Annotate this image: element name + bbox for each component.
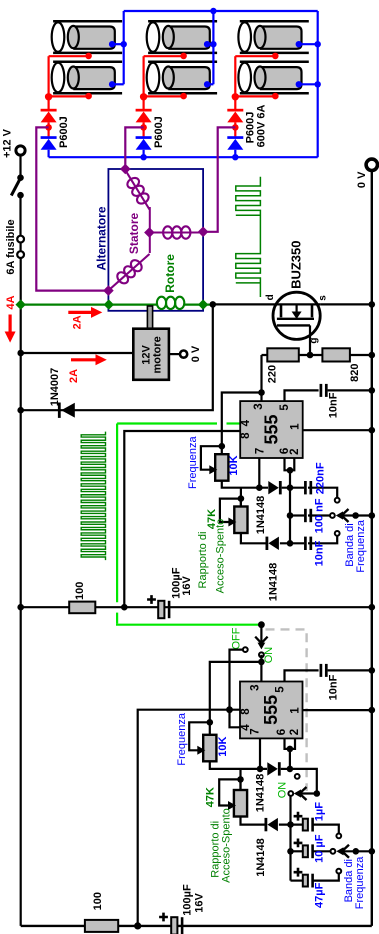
- node rotor to drain: [210, 301, 217, 308]
- svg-text:100 nF: 100 nF: [314, 498, 326, 533]
- wire pins 6+2 tie U1: [285, 458, 295, 470]
- junction rotor on frame left: [104, 299, 114, 309]
- wire supply lower U1: [21, 606, 372, 608]
- red wire battery group 1 row A: [49, 55, 89, 57]
- junction bus 10uF row: [287, 848, 294, 855]
- label D4 1N4148: [255, 496, 267, 535]
- fuse 6A fusibile: [17, 236, 24, 258]
- stator winding L2 (right): [150, 232, 203, 234]
- terminal motor 0V: [180, 351, 187, 358]
- wire band selector wiper lower: [336, 845, 372, 858]
- wire phase 2 purple: [125, 127, 143, 169]
- pin label s: [317, 295, 328, 301]
- blue wire cell 1a terminal: [112, 43, 124, 45]
- wire R3 10K wiper: [201, 446, 222, 470]
- svg-text:7: 7: [254, 448, 266, 454]
- wire C7 to contact: [313, 825, 339, 834]
- wire pins 6+2 tie U2: [285, 738, 296, 749]
- junction battery group 1 row A: [85, 53, 92, 60]
- diode D2b P600J (blue): [136, 136, 152, 150]
- battery cell B1b end cap: [52, 63, 65, 93]
- junction wiper rail lower: [369, 848, 376, 855]
- label Frequenza upper: [187, 436, 199, 489]
- wire D7 to bus: [279, 823, 303, 825]
- junction bus to switch U2: [287, 766, 294, 773]
- arrow 2A lower: [71, 354, 107, 365]
- svg-text:6A fusibile: 6A fusibile: [5, 219, 17, 274]
- wire phase 1 purple: [36, 127, 108, 290]
- svg-text:ON: ON: [276, 782, 288, 799]
- wire diode pair 1 center: [47, 122, 49, 136]
- wire phase 3 purple: [203, 127, 235, 231]
- wire C2 to selector contact: [308, 488, 337, 498]
- pin label g: [308, 337, 319, 343]
- label ON switch2: [276, 782, 288, 799]
- capacitor C6 10nF: [321, 664, 326, 677]
- motor M1 12V motore: [133, 329, 169, 380]
- resistor R8 100: [85, 920, 118, 932]
- junction gate node: [307, 352, 314, 359]
- battery cell B3a case plates: [240, 21, 309, 53]
- red wire battery group 3 vertical: [234, 56, 236, 109]
- wire diode pair 3 center: [234, 122, 236, 136]
- label Rotore: [163, 254, 177, 293]
- resistor R1 220: [267, 348, 299, 361]
- capacitor C7 1uF: [303, 818, 313, 832]
- label + of C5 100uF: [147, 595, 156, 604]
- wire 10K bottom to discharge node: [222, 481, 268, 488]
- label U2 555: [261, 695, 281, 725]
- wire pin1 U2 to rail: [303, 709, 372, 711]
- motor shaft: [147, 306, 152, 329]
- diode D7 1N4148: [265, 818, 278, 831]
- svg-text:8: 8: [240, 432, 252, 439]
- svg-text:Rotore: Rotore: [163, 254, 177, 293]
- wire 47uF row: [291, 879, 303, 881]
- trimmer R6 10K: [203, 735, 216, 762]
- diode D6 1N4148: [267, 762, 280, 775]
- label 600V 6A group 3: [256, 105, 268, 148]
- capacitor C8 10uF: [303, 844, 313, 858]
- svg-text:motore: motore: [152, 336, 164, 373]
- junction blue drop 2a: [210, 41, 216, 47]
- label 12V: [140, 344, 152, 364]
- trimmer R3 10K: [215, 454, 228, 481]
- svg-text:2: 2: [289, 729, 301, 735]
- wire diode 1b to negative line: [47, 150, 49, 157]
- svg-text:Frequenza: Frequenza: [355, 519, 367, 572]
- wire cap switch wiper arrow: [294, 787, 317, 800]
- label Banda di lower: [343, 859, 355, 902]
- wire 0V rail: [371, 170, 373, 926]
- waveform symbol PWM long: [81, 432, 105, 561]
- pin label 8 of U1: [240, 432, 252, 439]
- wire rotor green right: [184, 304, 213, 306]
- label 820: [349, 364, 361, 382]
- svg-text:0 V: 0 V: [356, 171, 368, 188]
- wire pin3 riser: [260, 355, 262, 401]
- wire D5 to bus: [280, 542, 304, 544]
- wire 10uF row: [291, 850, 303, 852]
- junction diode pair 3 center tap: [232, 124, 239, 131]
- svg-text:Frequenza: Frequenza: [354, 856, 366, 909]
- junction rotor on frame right: [198, 299, 208, 309]
- junction cell 2a terminal: [204, 41, 210, 47]
- svg-text:2: 2: [289, 448, 301, 454]
- wire R4 47K wiper: [220, 499, 241, 522]
- svg-text:16V: 16V: [194, 892, 206, 912]
- pin label 2 of U2: [289, 729, 301, 735]
- node stator star center: [144, 227, 155, 238]
- wire R6 10K wiper: [189, 722, 210, 750]
- svg-text:5: 5: [275, 686, 287, 693]
- svg-text:8: 8: [240, 708, 252, 715]
- blue drop wire group 1: [123, 11, 125, 84]
- wire C9 to contact: [313, 874, 339, 881]
- label 100uF lower: [182, 884, 194, 916]
- alternator frame box: [108, 169, 203, 311]
- junction enable to switch: [258, 621, 265, 628]
- label Rapporto di lower: [210, 821, 222, 878]
- blue positive rail top: [124, 10, 318, 12]
- svg-text:2A: 2A: [72, 315, 84, 329]
- wire gate divider: [262, 354, 372, 356]
- node phase 2 on frame: [120, 164, 131, 175]
- label 0 V: [356, 171, 368, 188]
- junction pin1 U1 rail: [369, 427, 376, 434]
- battery cell B2b body: [163, 67, 210, 90]
- blue wire cell 3a terminal: [299, 43, 318, 45]
- battery cell B3a body: [255, 26, 302, 49]
- pin label 7 of U1: [254, 448, 266, 454]
- junction cell 1b terminal: [109, 81, 115, 87]
- svg-text:5: 5: [279, 404, 291, 411]
- wire rotor green left: [21, 304, 157, 306]
- pin label 5 of U1: [279, 404, 291, 411]
- blue drop wire group 2: [212, 11, 214, 84]
- wire band selector wiper: [336, 509, 372, 522]
- junction cell 3a terminal: [296, 41, 302, 47]
- svg-text:BUZ350: BUZ350: [289, 240, 304, 288]
- trimmer R7 47K: [234, 790, 247, 817]
- svg-text:4: 4: [240, 419, 252, 426]
- capacitor C1 10nF: [321, 384, 326, 397]
- svg-text:7: 7: [250, 728, 262, 734]
- battery cell B3b case plates: [240, 62, 309, 93]
- svg-text:4A: 4A: [5, 295, 17, 309]
- svg-text:10 µF: 10 µF: [313, 834, 325, 863]
- capacitor C5 100uF: [158, 601, 169, 618]
- svg-text:1N4007: 1N4007: [49, 368, 61, 407]
- label Rapporto di upper: [197, 532, 209, 589]
- wire pin1 U1 to rail: [303, 429, 372, 431]
- wire diode 3b to negative line: [234, 150, 236, 157]
- wire 47K branch U1: [240, 488, 242, 507]
- diode D4 1N4148: [268, 481, 281, 494]
- junction battery group 3 row B: [272, 93, 279, 100]
- svg-text:47K: 47K: [205, 787, 217, 807]
- junction wiper mid: [352, 512, 359, 519]
- battery cell B1b case plates: [53, 62, 122, 93]
- svg-text:Acceso-Spento: Acceso-Spento: [221, 808, 233, 883]
- red wire battery group 3 row A: [235, 55, 275, 57]
- svg-text:1N4148: 1N4148: [255, 774, 267, 813]
- label + of C8 10uF: [294, 839, 303, 848]
- blue wire battery loop right side: [317, 11, 319, 157]
- junction battery group 1 to diode: [45, 93, 52, 100]
- svg-text:P600J: P600J: [58, 116, 70, 148]
- pin label 3 of U1: [253, 403, 265, 409]
- contact selector 10nF: [335, 531, 340, 536]
- svg-text:10K: 10K: [217, 737, 229, 757]
- battery cell B3a end cap: [238, 22, 251, 52]
- wire 47K branch U2: [239, 769, 241, 790]
- svg-text:10nF: 10nF: [314, 540, 326, 566]
- label 220: [266, 365, 278, 383]
- junction bus 100nF row: [287, 512, 294, 519]
- label Frequenza lower: [176, 712, 188, 765]
- wire stator L1 stub: [149, 207, 151, 233]
- blue wire cell 2b terminal: [207, 83, 213, 85]
- svg-text:P600J: P600J: [153, 116, 165, 148]
- diode D5 1N4148: [266, 537, 279, 550]
- junction C6 rail: [369, 667, 376, 674]
- junction top rail G2: [210, 8, 216, 14]
- junction cell 2b terminal: [204, 81, 210, 87]
- contact ON position 1: [259, 652, 264, 657]
- wire pin4 jog U2: [230, 710, 241, 728]
- switch S1: [11, 174, 24, 198]
- junction 820 on 0V rail: [369, 352, 376, 359]
- svg-text:0 V: 0 V: [190, 345, 202, 362]
- trimmer R4 47K: [234, 507, 247, 534]
- junction wiper mid lower: [353, 848, 360, 855]
- junction U2 rail node: [134, 922, 141, 929]
- junction battery group 3 row A: [272, 53, 279, 60]
- wire pin8 U2 supply: [138, 710, 240, 926]
- wire source: [320, 303, 372, 305]
- wire R6 10K top terminal: [209, 722, 211, 735]
- wire C3 to selector contact: [308, 514, 330, 516]
- capacitor C9 47uF: [303, 874, 313, 888]
- label 10K: [228, 455, 240, 475]
- red wire battery group 2 vertical: [143, 56, 145, 109]
- label +12 V: [2, 128, 14, 158]
- junction supply on left rail: [17, 604, 24, 611]
- svg-text:47µF: 47µF: [313, 882, 325, 908]
- svg-text:1N4148: 1N4148: [268, 563, 280, 602]
- junction pin3 node: [258, 389, 265, 396]
- wire pin3 stub U2: [260, 655, 262, 682]
- wire pin4 U1 enable green: [117, 424, 261, 625]
- contact selector 1uF: [336, 834, 341, 839]
- junction bus 220nF row: [287, 484, 294, 491]
- svg-text:1µF: 1µF: [313, 802, 325, 821]
- wire C6 to rail: [328, 669, 372, 671]
- wire timing bus U1: [289, 470, 291, 543]
- svg-text:3: 3: [253, 403, 265, 409]
- blue wire cell 3b terminal: [299, 83, 318, 85]
- svg-text:220: 220: [266, 365, 278, 383]
- wire pin7 stub U1: [258, 458, 260, 488]
- resistor R5 100: [69, 602, 95, 614]
- label P600J group 2: [153, 116, 165, 148]
- label + of C10 100uF: [159, 913, 168, 922]
- label 1N4007: [49, 368, 61, 407]
- battery cell B3b body: [255, 67, 302, 90]
- junction wiper rail: [369, 512, 376, 519]
- label motore: [152, 336, 164, 373]
- svg-text:10nF: 10nF: [328, 392, 340, 418]
- label 10nF selector: [314, 540, 326, 566]
- transistor Q1 BUZ350: [273, 292, 320, 355]
- label 2A lower: [68, 369, 80, 383]
- contact selector 47uF: [336, 869, 341, 874]
- label Acceso-Spento lower: [221, 808, 233, 883]
- label 10K: [217, 737, 229, 757]
- diode D1b P600J (blue): [41, 136, 57, 150]
- pin label 1 of U2: [290, 707, 302, 714]
- svg-text:3: 3: [250, 684, 262, 690]
- red wire battery group 2 row A: [144, 55, 184, 57]
- pin label 5 of U2: [275, 686, 287, 693]
- wire motor 0V stub: [169, 353, 181, 355]
- label P600J group 1: [58, 116, 70, 148]
- label 220nF: [315, 462, 327, 494]
- svg-text:12V: 12V: [140, 344, 152, 364]
- label 47uF: [313, 882, 325, 908]
- node phase 1 on frame: [103, 285, 114, 296]
- terminal 0V: [366, 159, 377, 170]
- pin label 6 of U1: [279, 448, 291, 454]
- wire R3 10K top terminal: [221, 446, 223, 454]
- svg-text:1: 1: [290, 423, 302, 430]
- capacitor C3 100nF: [305, 509, 310, 522]
- svg-text:Rapporto di: Rapporto di: [197, 532, 209, 589]
- junction battery group 3 to diode: [232, 93, 239, 100]
- label BUZ350: [289, 240, 304, 288]
- junction motor wire on rail: [17, 350, 24, 357]
- label + of C7 1uF: [294, 812, 303, 821]
- junction diode pair 1 center tap: [45, 124, 52, 131]
- rotor winding coil: [157, 297, 184, 309]
- svg-text:820: 820: [349, 364, 361, 382]
- pin label 8 of U2: [240, 708, 252, 715]
- label 10nF lower: [328, 674, 340, 700]
- diode 1N4007: [58, 403, 75, 418]
- svg-text:Frequenza: Frequenza: [176, 712, 188, 765]
- IC U2 555 body: [240, 682, 303, 739]
- pin label 3 of U2: [250, 684, 262, 690]
- junction bus 1uF row: [287, 821, 294, 828]
- junction R6 10K top: [207, 719, 214, 726]
- junction bus 10nF row: [287, 540, 294, 547]
- wire C4 to selector contact: [308, 536, 337, 544]
- diode D2a P600J (red): [136, 109, 152, 123]
- svg-text:555: 555: [261, 414, 281, 444]
- contact selector 10uF wiper: [331, 849, 336, 854]
- svg-text:ON: ON: [263, 647, 275, 664]
- wire pin5 stub U2: [285, 670, 319, 681]
- label 47K: [206, 509, 218, 529]
- junction blue drop 1a: [121, 41, 127, 47]
- battery cell B2a body: [163, 26, 210, 49]
- junction R3 10K top: [219, 443, 226, 450]
- junction battery group 2 row A: [180, 53, 187, 60]
- wire bottom return: [21, 925, 372, 927]
- svg-text:Frequenza: Frequenza: [187, 436, 199, 489]
- svg-text:s: s: [317, 295, 328, 301]
- wire D6 to bus: [281, 768, 290, 770]
- svg-text:100: 100: [74, 582, 86, 600]
- arrow 4A current direction: [5, 315, 16, 343]
- blue wire cell 1b terminal: [112, 83, 124, 85]
- node phase 3 on frame: [198, 227, 209, 238]
- wire terminal to switch: [19, 155, 21, 175]
- junction battery group 2 row B: [180, 93, 187, 100]
- svg-text:1N4148: 1N4148: [255, 496, 267, 535]
- wire switch arm: [255, 625, 267, 650]
- battery cell B3b end cap: [238, 63, 251, 93]
- label Alternatore: [95, 206, 109, 270]
- wire timing bus top U2: [289, 749, 291, 769]
- svg-text:10K: 10K: [228, 455, 240, 475]
- wire pin3 to frequency trimmer U2: [210, 662, 262, 722]
- svg-text:d: d: [265, 294, 276, 300]
- capacitor C4 10nF: [305, 537, 310, 550]
- wire dashed alternative link: [266, 629, 307, 791]
- wire pin8 U1 supply: [124, 431, 240, 607]
- IC U1 555 body: [240, 401, 303, 458]
- pin label d: [265, 294, 276, 300]
- svg-text:2A: 2A: [68, 369, 80, 383]
- wire R7 47K top terminal: [239, 779, 241, 790]
- wire OFF to supply: [230, 650, 243, 710]
- battery cell B1a body: [68, 26, 115, 49]
- diode D3a P600J (red): [227, 109, 243, 123]
- junction cell 3b terminal: [296, 81, 302, 87]
- label 2A upper: [72, 315, 84, 329]
- red wire battery group 1 row B: [49, 95, 89, 97]
- wire C8 to wiper contact: [313, 850, 330, 852]
- wire 10K bottom to discharge node U2: [210, 761, 267, 769]
- battery cell B2b case plates: [148, 62, 217, 93]
- wire 47K bottom U2: [241, 817, 266, 825]
- contact OFF position 1: [243, 647, 248, 652]
- junction pin7 on node U1: [256, 484, 263, 491]
- pin label 2 of U1: [289, 448, 301, 454]
- label ON switch1: [263, 647, 275, 664]
- label 16V lower: [194, 892, 206, 912]
- junction bottom blue G3: [232, 154, 238, 160]
- label OFF switch1: [231, 627, 243, 649]
- junction bottom blue G2: [140, 154, 146, 160]
- junction pin1 U2 rail: [369, 707, 376, 714]
- pin label 6 of U2: [276, 729, 288, 735]
- wire bus jog to cap switch: [290, 769, 317, 794]
- label D7 1N4148: [255, 838, 267, 877]
- junction cell 1a terminal: [109, 41, 115, 47]
- label Frequenza band lower: [354, 856, 366, 909]
- label 100uF upper: [171, 567, 183, 599]
- junction U1 rail node: [121, 604, 128, 611]
- svg-text:P600J: P600J: [244, 112, 256, 144]
- wire left rail: [20, 258, 22, 926]
- junction C1 rail: [369, 387, 376, 394]
- battery cell B1b body: [68, 67, 115, 90]
- svg-text:g: g: [308, 337, 319, 343]
- wire R4 47K top terminal: [240, 499, 242, 507]
